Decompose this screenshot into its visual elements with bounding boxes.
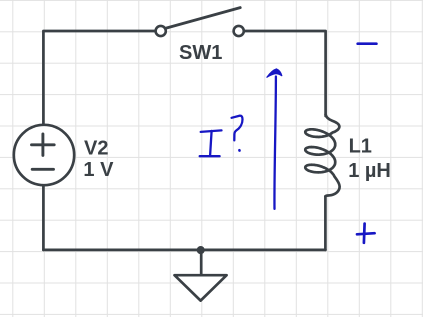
svg-text:SW1: SW1 (179, 42, 222, 64)
wire right lower segment (324, 196, 327, 250)
junction node dot (197, 246, 205, 254)
ground triangle (175, 275, 227, 300)
inductor L1 coil (305, 115, 339, 197)
annotation plus polarity vertical (363, 224, 366, 243)
V2 minus sign (32, 168, 53, 171)
switch SW1 left terminal circle (156, 26, 166, 36)
svg-text:V2: V2 (84, 137, 108, 159)
switch SW1 right terminal circle (234, 26, 244, 36)
wire left lower segment (42, 186, 45, 250)
wire top-right segment (243, 31, 325, 116)
annotation I vertical stroke (210, 131, 212, 155)
annotation I bottom bar (200, 155, 220, 157)
annotation question dot (238, 149, 241, 152)
annotation question mark (232, 116, 243, 141)
annotation current arrow shaft (274, 77, 275, 209)
wire top-left vertical segment (43, 31, 155, 124)
annotation plus polarity horizontal (357, 233, 375, 234)
annotation current arrow head (267, 69, 282, 77)
svg-text:1 V: 1 V (83, 159, 114, 181)
wire bottom segment (43, 249, 325, 252)
V2 plus sign (32, 134, 55, 155)
annotation I-beam top bar (201, 130, 222, 132)
svg-text:L1: L1 (349, 136, 372, 158)
annotation minus polarity mark (358, 42, 377, 45)
switch SW1 blade (164, 8, 240, 29)
voltage source V2 circle (14, 125, 74, 185)
svg-text:1 µH: 1 µH (348, 160, 391, 182)
ground stub wire (200, 250, 203, 275)
